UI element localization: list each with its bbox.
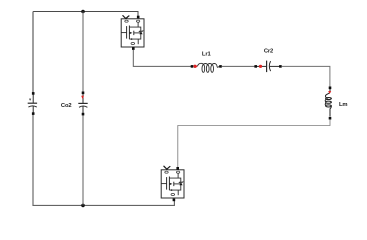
node junction top (81, 10, 85, 14)
unconnected gate marker U1 (123, 16, 129, 19)
port square U2 drain (176, 167, 179, 170)
wire Co2 vertical upper (82, 12, 84, 93)
inductor Lr1 (197, 63, 219, 72)
port square U1 drain (137, 16, 140, 19)
wire Cr2 to Lm (282, 66, 330, 86)
svg-text:Co2: Co2 (61, 103, 72, 109)
unconnected gate marker U2 (164, 166, 170, 169)
capacitor Cr2 (257, 61, 279, 73)
wire U1 source to Lr1 (133, 50, 192, 67)
wire Lm to mosfet U2 (178, 119, 330, 167)
capacitor Co2 (78, 94, 87, 113)
svg-text:Cr2: Cr2 (264, 49, 273, 55)
capacitor C1 (left, unnamed) (28, 95, 37, 113)
port square U2 source (173, 199, 176, 202)
wire left vertical lower (33, 115, 174, 206)
wire Lr1 to Cr2 (222, 65, 255, 67)
wire Co2 vertical lower (82, 115, 84, 205)
svg-text:Lr1: Lr1 (202, 51, 212, 57)
node junction bottom (81, 204, 85, 208)
mosfet U2 (bottom) (161, 170, 184, 198)
port square U1 source (132, 47, 135, 50)
inductor Lm (vertical) (325, 89, 331, 117)
svg-text:Lm: Lm (339, 102, 348, 108)
wire left vertical upper (32, 12, 34, 93)
wire top rail (33, 12, 138, 17)
mosfet U1 (top) (121, 19, 144, 47)
